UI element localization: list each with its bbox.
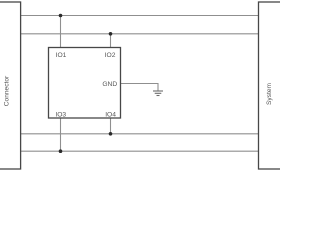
svg-text:IO4: IO4 [105, 111, 116, 118]
system block [259, 2, 290, 169]
chip U1 [49, 48, 121, 119]
wire: third bus line C [21, 133, 259, 135]
wire: IO2 vertical to line B [110, 34, 112, 48]
ground [153, 91, 163, 96]
wire: second bus line B [21, 33, 259, 35]
junction: IO3 on line D [59, 149, 63, 153]
svg-text:IO2: IO2 [105, 52, 116, 59]
svg-text:IO1: IO1 [56, 52, 67, 59]
connector block [0, 2, 21, 169]
wire: IO3 vertical to line D [60, 118, 62, 152]
wire: IO4 vertical to line C [110, 118, 112, 134]
wire: GND to ground symbol [121, 84, 159, 91]
junction: IO2 on line B [109, 32, 113, 36]
svg-text:IO3: IO3 [55, 111, 66, 118]
junction: IO4 on line C [109, 132, 113, 136]
wire: IO1 vertical to line A [60, 16, 62, 49]
svg-text:GND: GND [102, 81, 117, 88]
svg-text:Connector: Connector [3, 75, 10, 106]
wire: top bus line A [21, 15, 259, 17]
junction: IO1 on line A [59, 14, 63, 18]
svg-text:System: System [266, 83, 273, 105]
wire: bottom bus line D [21, 150, 259, 152]
